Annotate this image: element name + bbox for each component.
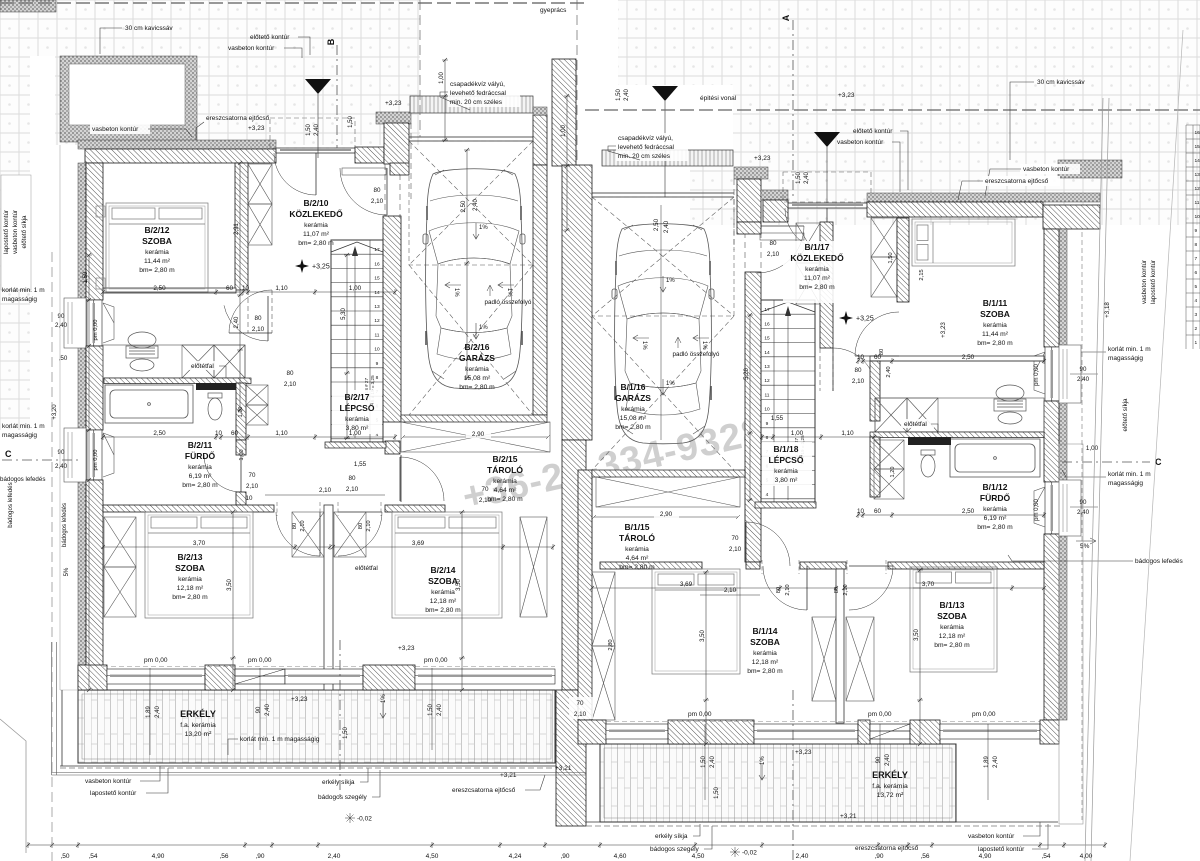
svg-text:1,00: 1,00 [239, 449, 245, 460]
room label B/1/11 [977, 298, 1013, 347]
leader badogos right [1008, 555, 1133, 561]
wall hall low B2 b [236, 492, 246, 505]
room label B/2/10 [289, 198, 343, 247]
svg-text:bm= 2,80 m: bm= 2,80 m [182, 482, 218, 489]
elotetfal thin wall B1 [870, 432, 1044, 438]
svg-text:2,10: 2,10 [366, 520, 372, 531]
bed B/2/12 [106, 203, 208, 292]
svg-text:2,40: 2,40 [624, 89, 630, 101]
car in garage B/1/16 [612, 224, 714, 444]
svg-text:1%: 1% [381, 694, 387, 703]
svg-text:bm= 2,80 m: bm= 2,80 m [799, 284, 835, 291]
balcony dim 1,50 [428, 704, 443, 716]
plot corner bottom-left [0, 719, 26, 853]
closet B/2/14 [334, 512, 366, 557]
svg-text:lapostető kontúr: lapostető kontúr [3, 210, 10, 254]
korlat dashed right [1081, 232, 1083, 820]
paving texture top-left [0, 0, 420, 56]
outer wall top-right [867, 202, 1043, 217]
svg-text:11,44 m²: 11,44 m² [144, 258, 171, 265]
window S B/1/14 b [754, 724, 858, 739]
svg-text:4,90: 4,90 [979, 853, 992, 860]
svg-text:70: 70 [249, 472, 256, 479]
door B/1/11 [833, 348, 876, 391]
gravel block garage1 corner [376, 112, 411, 124]
elotetfal black segment B1 [908, 437, 951, 445]
stairs B2 bottom thin wall [325, 442, 386, 448]
outer wall right upper [1044, 229, 1059, 347]
driveway divider wall [552, 59, 576, 166]
svg-text:bm= 2,80 m: bm= 2,80 m [977, 524, 1013, 531]
leader vasbeton TR [892, 142, 900, 192]
window E b1 szoba [1045, 347, 1060, 401]
svg-text:12,18 m²: 12,18 m² [177, 585, 204, 592]
garage1 dashed cross box [409, 141, 533, 415]
section line B upper [336, 45, 338, 148]
shaft right B2 a [246, 385, 268, 405]
svg-text:1%: 1% [479, 225, 488, 231]
svg-text:70: 70 [576, 700, 584, 707]
svg-text:80: 80 [348, 475, 356, 482]
right edge numbered ladder [1186, 125, 1200, 349]
svg-text:kerámia: kerámia [178, 576, 202, 583]
leader eloteto TL [298, 37, 310, 55]
vanity closet B1 b [907, 398, 938, 432]
svg-text:3: 3 [1195, 312, 1198, 318]
svg-text:KÖZLEKEDŐ: KÖZLEKEDŐ [289, 208, 343, 219]
svg-text:60: 60 [231, 430, 239, 437]
svg-text:bm= 2,80 m: bm= 2,80 m [747, 668, 783, 675]
paving texture left column [0, 56, 30, 430]
svg-text:90: 90 [58, 313, 65, 320]
svg-text:padló összefolyó: padló összefolyó [485, 299, 532, 306]
svg-text:bm= 2,80 m: bm= 2,80 m [977, 340, 1013, 347]
dim 3,69 B1 [590, 585, 838, 591]
svg-text:90: 90 [1080, 366, 1087, 373]
garage1 front-right corner [533, 115, 547, 165]
svg-text:11: 11 [375, 332, 380, 338]
svg-text:1%: 1% [760, 756, 766, 765]
svg-text:+3,23: +3,23 [940, 322, 947, 338]
svg-text:2,15: 2,15 [919, 269, 925, 280]
svg-text:kerámia: kerámia [145, 249, 169, 256]
bottom dim line [28, 844, 1105, 846]
leader vasbeton L2 [148, 129, 192, 137]
svg-text:bádogos lefedés: bádogos lefedés [0, 476, 45, 483]
korlat dashes above windows B2 [103, 666, 555, 668]
door B/2/11 bath [224, 296, 268, 341]
shaft B1 c [874, 440, 904, 469]
bed B/2/13 [145, 512, 253, 618]
svg-text:3,70: 3,70 [193, 540, 206, 547]
svg-text:SZOBA: SZOBA [937, 611, 967, 621]
dim 80/2,10 bath door B2 [252, 315, 265, 333]
svg-text:16: 16 [1195, 130, 1200, 136]
window S B/1/14 a [606, 724, 668, 739]
svg-text:11,07 m²: 11,07 m² [303, 231, 330, 238]
svg-text:bm= 2,80 m: bm= 2,80 m [615, 424, 651, 431]
svg-text:7: 7 [1195, 256, 1198, 262]
garage1 gutter strip [410, 96, 533, 113]
plot boundary top [0, 2, 585, 4]
svg-text:30 cm kavicssáv: 30 cm kavicssáv [125, 25, 173, 32]
gravel above garage1 right [533, 107, 547, 115]
svg-text:bm= 2,80 m: bm= 2,80 m [459, 384, 495, 391]
wardrobe B/1/11 a [871, 218, 897, 257]
dim row B2 upper [101, 289, 397, 295]
leader vasbeton TL [284, 48, 302, 58]
balcony dim 1,89 [984, 756, 999, 768]
room label B/1/12 [977, 482, 1013, 531]
svg-text:ereszcsatorna ejtőcső: ereszcsatorna ejtőcső [985, 178, 1049, 185]
svg-text:1%: 1% [641, 341, 647, 350]
svg-text:2,40: 2,40 [796, 853, 809, 860]
wardrobe B/1/11 b [871, 257, 897, 297]
svg-text:2,10: 2,10 [371, 198, 384, 205]
wall furdo left B1 upper [870, 361, 880, 421]
svg-text:14: 14 [1195, 158, 1200, 164]
svg-text:1%: 1% [666, 381, 675, 387]
epitesi vonal [585, 109, 1200, 111]
svg-text:13: 13 [1195, 172, 1200, 178]
svg-text:bádogos lefedés: bádogos lefedés [62, 503, 68, 547]
elotetfal thin wall B2 [104, 378, 251, 384]
dim 80/2,10 szoba door B1 [852, 367, 865, 385]
shaft right B2 b [246, 405, 268, 425]
svg-text:vasbeton kontúr: vasbeton kontúr [1023, 166, 1070, 173]
svg-text:FÜRDŐ: FÜRDŐ [185, 450, 216, 461]
vanity closet B2 b [214, 345, 245, 378]
room label B/1/15 [619, 522, 655, 571]
svg-text:2,50: 2,50 [153, 430, 166, 437]
leader elotetfal B2 [219, 366, 226, 378]
svg-text:SZOBA: SZOBA [428, 576, 458, 586]
svg-text:80: 80 [254, 315, 262, 322]
slope arrow 1% [498, 282, 514, 297]
svg-text:6,19 m²: 6,19 m² [189, 473, 212, 480]
svg-text:korlát min. 1 m: korlát min. 1 m [1108, 471, 1151, 478]
svg-text:1,50: 1,50 [714, 787, 720, 799]
svg-text:1,00: 1,00 [349, 430, 362, 437]
svg-text:5: 5 [1195, 284, 1198, 290]
garage2 door line [592, 193, 734, 197]
svg-text:3,80 m²: 3,80 m² [775, 477, 798, 484]
tarolo door frame B1 [592, 477, 745, 562]
wall bedrooms top B1 part c [800, 562, 846, 569]
svg-text:,56: ,56 [219, 853, 228, 860]
vanity closet B1 a [875, 398, 907, 432]
svg-text:TÁROLÓ: TÁROLÓ [619, 532, 655, 543]
north arrow middle [652, 86, 678, 101]
svg-text:B/2/15: B/2/15 [492, 454, 517, 464]
stairs B2 walk line + arrow [354, 250, 356, 438]
svg-text:1%: 1% [506, 288, 512, 297]
svg-text:4,90: 4,90 [152, 853, 165, 860]
dim 1,00 gutter1 [442, 58, 448, 142]
level -0,02 right [730, 847, 740, 857]
wall bedrooms top B1 part a [600, 562, 702, 569]
bottom pier A left [78, 665, 107, 690]
dividing dashed line [576, 0, 578, 166]
door B/2/13 [276, 512, 320, 556]
balcony dim 1,89 [146, 706, 161, 718]
svg-text:kerámia: kerámia [304, 222, 328, 229]
outer wall top-left B [355, 147, 384, 163]
svg-text:2,90: 2,90 [660, 511, 673, 518]
svg-text:erkély síkja: erkély síkja [655, 833, 688, 840]
svg-text:ereszcsatorna ejtőcső: ereszcsatorna ejtőcső [855, 845, 919, 852]
leader korlat R1 [1062, 345, 1106, 352]
sash window W furdo [103, 433, 114, 477]
bed B/1/13 [910, 567, 997, 672]
vanity counter B/2/11 [103, 345, 245, 378]
svg-text:11: 11 [765, 392, 770, 398]
svg-text:FÜRDŐ: FÜRDŐ [980, 492, 1011, 503]
leader vasbeton R2 [985, 169, 1021, 196]
room label B/1/17 [790, 242, 844, 291]
svg-text:f.a. kerámia: f.a. kerámia [180, 722, 216, 729]
svg-text:korlát min. 1 m magasságig: korlát min. 1 m magasságig [240, 736, 320, 743]
wardrobe B/2/13 b [104, 567, 136, 617]
svg-text:2,80: 2,80 [608, 639, 614, 650]
svg-text:4,50: 4,50 [692, 853, 705, 860]
svg-text:B/2/10: B/2/10 [303, 198, 328, 208]
svg-text:GARÁZS: GARÁZS [615, 393, 651, 403]
svg-text:f.a. kerámia: f.a. kerámia [872, 783, 908, 790]
svg-text:B/1/13: B/1/13 [939, 600, 964, 610]
dim row B1 upper [856, 358, 1046, 364]
svg-text:,54: ,54 [88, 853, 97, 860]
room label B/1/18 [769, 444, 804, 484]
svg-text:2,40: 2,40 [328, 853, 341, 860]
svg-text:TÁROLÓ: TÁROLÓ [487, 464, 523, 475]
garage2 bottom thin wall [592, 470, 745, 477]
svg-text:1,50: 1,50 [348, 116, 354, 128]
garage2 right wall [745, 272, 761, 562]
svg-text:előtétfal: előtétfal [904, 421, 927, 428]
bottom dim numbers [60, 853, 1092, 860]
svg-text:1,00: 1,00 [561, 125, 567, 137]
svg-text:80: 80 [834, 587, 840, 593]
washing machine B/2 [126, 332, 158, 371]
svg-text:előtető síkja: előtető síkja [21, 215, 28, 249]
paving texture top-right [618, 0, 1200, 112]
svg-text:+3,23: +3,23 [754, 155, 771, 162]
svg-text:min. 20 cm széles: min. 20 cm széles [618, 153, 671, 160]
svg-text:+3,23: +3,23 [795, 749, 812, 756]
dim 2,90 tarolo B2 [403, 436, 548, 438]
svg-text:2,10: 2,10 [852, 378, 865, 385]
svg-text:2,10: 2,10 [319, 487, 332, 494]
svg-text:3,69: 3,69 [412, 540, 425, 547]
central wall middle [562, 440, 586, 690]
svg-text:pm 0,00: pm 0,00 [972, 711, 996, 718]
svg-text:-0,02: -0,02 [357, 816, 372, 823]
door opening dashes bedroom B2 [277, 502, 381, 516]
svg-text:2,40: 2,40 [473, 199, 479, 211]
bottom pier B right [668, 720, 754, 744]
svg-text:1,20: 1,20 [238, 407, 244, 418]
svg-text:4,64 m²: 4,64 m² [494, 487, 517, 494]
svg-text:1,00: 1,00 [791, 430, 804, 437]
stairs B/2/17 treads [331, 240, 383, 442]
svg-text:pm 0,00: pm 0,00 [144, 657, 168, 664]
svg-text:magasságig: magasságig [2, 432, 37, 439]
dim col garage2 [660, 205, 662, 440]
svg-text:kerámia: kerámia [805, 266, 829, 273]
room label B/2/14 [425, 565, 461, 614]
svg-text:KÖZLEKEDŐ: KÖZLEKEDŐ [790, 252, 844, 263]
svg-text:2,10: 2,10 [724, 587, 737, 594]
svg-text:2,40: 2,40 [663, 220, 670, 233]
tarolo door frame B2 [400, 455, 402, 502]
svg-text:2,10: 2,10 [346, 486, 359, 493]
dim 3,70 B1 [842, 585, 1046, 591]
pier at tarolo door B2 [385, 441, 400, 454]
garage1 door line [409, 137, 535, 141]
window S B/1/13 [940, 724, 1040, 739]
svg-text:2,40: 2,40 [314, 124, 320, 136]
svg-text:,90: ,90 [874, 853, 883, 860]
svg-text:80: 80 [854, 367, 862, 374]
slope arrow 1% [660, 276, 675, 292]
dim col far left [86, 253, 92, 692]
svg-text:bm= 2,80 m: bm= 2,80 m [298, 240, 334, 247]
room label B/2/16 [459, 342, 495, 391]
bathtub B/2/11 [105, 385, 193, 423]
dim 3,70 B2 [101, 544, 332, 550]
svg-text:3,69: 3,69 [680, 581, 693, 588]
svg-text:vasbeton kontúr: vasbeton kontúr [228, 45, 275, 52]
svg-text:1,50: 1,50 [701, 756, 707, 768]
wardrobe B/1/14 a [592, 572, 615, 646]
svg-text:SZOBA: SZOBA [750, 637, 780, 647]
car in garage B/2/16 [423, 169, 525, 389]
svg-text:5%: 5% [64, 567, 70, 576]
leader badogos BL [372, 770, 380, 797]
svg-text:ERKÉLY: ERKÉLY [180, 709, 216, 719]
svg-text:9: 9 [376, 361, 379, 367]
sash window E2 [1034, 487, 1045, 527]
balcony dim 90 [876, 754, 891, 766]
svg-text:B: B [326, 38, 336, 45]
plot boundary left bottom [51, 252, 53, 861]
svg-text:10: 10 [246, 495, 253, 502]
outer wall right lower [1044, 534, 1059, 720]
svg-text:70: 70 [731, 535, 739, 542]
door B/2/12 [229, 290, 272, 333]
svg-text:B/2/17: B/2/17 [344, 392, 369, 402]
svg-text:90: 90 [256, 706, 262, 713]
washer B/1/12 [994, 385, 1026, 424]
svg-text:8: 8 [1195, 242, 1198, 248]
section line A upper [792, 20, 794, 200]
svg-text:GARÁZS: GARÁZS [459, 353, 495, 363]
svg-text:bádogos lefedés: bádogos lefedés [7, 482, 14, 527]
bottom dim ticks [26, 842, 1107, 848]
svg-text:2,40: 2,40 [265, 704, 271, 716]
niche wall B/1/11 [897, 218, 909, 302]
garage1 bottom thin wall [401, 415, 547, 422]
svg-text:1%: 1% [453, 288, 459, 297]
svg-text:kerámia: kerámia [493, 478, 517, 485]
svg-text:1,89: 1,89 [984, 756, 990, 768]
svg-text:15: 15 [764, 336, 770, 342]
svg-text:,90: ,90 [560, 853, 569, 860]
svg-text:2,10: 2,10 [767, 251, 780, 258]
svg-text:13: 13 [374, 304, 380, 310]
dim 80/2,10 szoba door B2 [284, 370, 297, 388]
garage2 dashed cross box [592, 197, 734, 470]
gravel edge above top wall left [78, 140, 276, 149]
svg-text:,50: ,50 [60, 853, 69, 860]
svg-text:2,40: 2,40 [155, 706, 161, 718]
svg-text:1,10: 1,10 [275, 285, 288, 292]
door garage B/1/16 [757, 226, 804, 273]
dim 5,30 stairs B2 [344, 253, 350, 440]
wall bedrooms top B1 part d [888, 562, 1044, 569]
dim 3,69 B2 [331, 544, 555, 550]
garage1 door opening dashes [385, 123, 411, 216]
door B/2/15 tarolo [400, 457, 444, 501]
balcony door B/1 [870, 724, 910, 739]
gravel block garage2 corner [734, 167, 768, 179]
svg-text:10: 10 [857, 508, 865, 515]
leader eresz TR [958, 181, 983, 200]
plot boundary right slanted [1085, 98, 1109, 861]
leader elotetfal B1 [931, 424, 938, 434]
svg-text:12,18 m²: 12,18 m² [939, 633, 966, 640]
garage1 left wall [383, 216, 401, 422]
svg-text:80: 80 [373, 187, 381, 194]
svg-text:+3,25: +3,25 [856, 316, 874, 323]
wall hall low B2 a [236, 440, 246, 455]
svg-text:10: 10 [242, 285, 250, 292]
window sill box E upper [1059, 345, 1081, 403]
leader korlat R3 [1062, 470, 1106, 477]
door B/1/14 [763, 566, 807, 610]
svg-text:kerámia: kerámia [774, 468, 798, 475]
wall bedrooms top B1 part b [746, 562, 760, 569]
door B/1/11 opening dashes [820, 348, 833, 391]
svg-text:2,10: 2,10 [574, 711, 587, 718]
shelf line above stairs B1 [760, 233, 804, 240]
svg-text:1: 1 [1195, 340, 1198, 346]
svg-text:1,20: 1,20 [890, 467, 896, 478]
dim 80/2,10 garage door B2 [371, 187, 384, 205]
svg-text:LÉPCSŐ: LÉPCSŐ [340, 402, 375, 413]
svg-text:90: 90 [876, 756, 882, 763]
svg-text:B/1/17: B/1/17 [804, 242, 829, 252]
garage1 right wall [533, 165, 547, 415]
window W b2 upper [87, 300, 102, 346]
svg-text:80: 80 [358, 523, 364, 529]
dim col garage1 [464, 148, 470, 380]
svg-text:15,08 m²: 15,08 m² [620, 415, 647, 422]
window sill box W furdo [64, 428, 86, 482]
entry threshold B/1 [788, 203, 867, 208]
wardrobe B/1/14 b [592, 646, 615, 720]
dim 80/2,10 garage door B1 [767, 240, 780, 258]
shaft B1 b [796, 263, 820, 304]
leader csapadek 2 [608, 146, 640, 160]
wall szoba/hall B2 [235, 163, 248, 290]
wardrobe right B/2/14 [520, 517, 547, 617]
left wall lower B1 [578, 470, 592, 720]
svg-text:előtétfal: előtétfal [191, 363, 214, 370]
window sill box W upper [64, 298, 86, 348]
svg-text:magasságig: magasságig [2, 296, 37, 303]
